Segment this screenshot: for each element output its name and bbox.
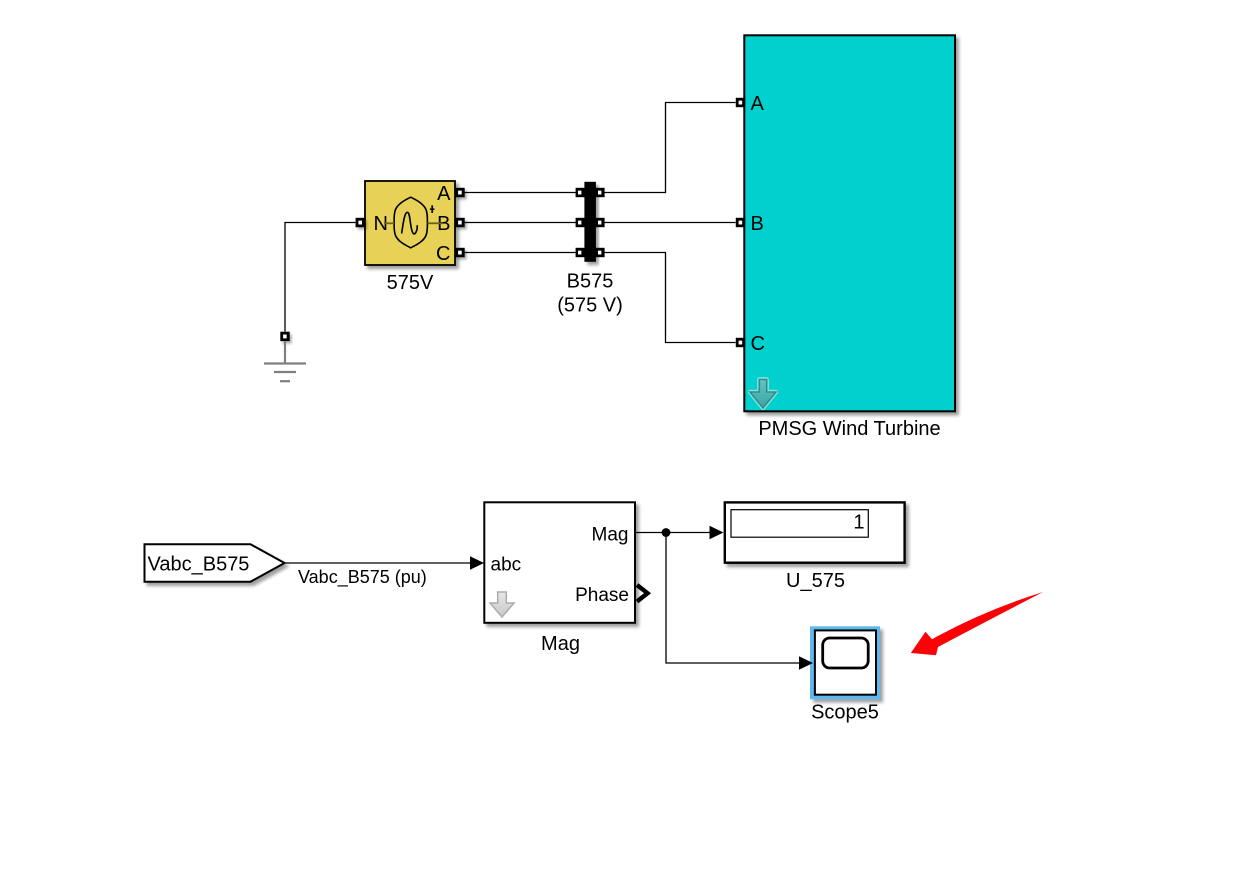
bus bar B575	[584, 182, 596, 262]
Mag block	[484, 502, 635, 623]
display U_575	[725, 502, 905, 562]
wire junction to Scope5	[666, 533, 800, 664]
scope Scope5 selection highlight	[810, 626, 880, 699]
svg-text:Scope5: Scope5	[811, 702, 879, 724]
arrowhead into Mag	[470, 556, 484, 570]
wire N from source to ground	[285, 223, 356, 332]
svg-text:A: A	[751, 93, 765, 115]
bus port B right	[595, 218, 604, 227]
source icon sine wave	[402, 212, 418, 234]
bus port B left	[576, 218, 585, 227]
bus port A right	[595, 188, 604, 197]
PMSG port B	[736, 218, 745, 227]
svg-text:B: B	[751, 213, 764, 235]
scope Scope5 block	[815, 630, 876, 694]
svg-text:Mag: Mag	[592, 524, 629, 545]
source icon lens	[394, 197, 427, 248]
svg-text:575V: 575V	[387, 272, 434, 294]
PMSG Wind Turbine block	[744, 35, 955, 411]
svg-text:C: C	[436, 243, 450, 265]
Mag unconnected output chevron Phase	[637, 585, 648, 602]
source port B	[455, 218, 464, 227]
bus port C left	[576, 248, 585, 257]
svg-text:B575: B575	[567, 271, 614, 293]
ground port	[280, 332, 289, 341]
svg-text:Phase: Phase	[575, 585, 629, 606]
wire Mag to U_575	[635, 532, 711, 534]
PMSG port A	[736, 98, 745, 107]
svg-text:Mag: Mag	[541, 633, 580, 655]
wire C source to bus	[465, 252, 577, 254]
wire A bus to PMSG	[605, 103, 736, 193]
source port N	[356, 218, 365, 227]
svg-text:PMSG Wind Turbine: PMSG Wind Turbine	[758, 418, 940, 440]
red annotation arrow	[911, 592, 1043, 655]
svg-text:C: C	[751, 333, 765, 355]
wire B bus to PMSG	[605, 222, 736, 224]
junction node	[662, 528, 671, 537]
wire C bus to PMSG	[605, 253, 736, 343]
bus port A left	[576, 188, 585, 197]
source plus mark	[431, 205, 433, 213]
arrowhead into U_575	[710, 526, 724, 540]
Mag mask arrow badge	[490, 592, 514, 617]
svg-text:U_575: U_575	[786, 570, 845, 592]
svg-text:abc: abc	[491, 554, 522, 575]
ground symbol	[264, 342, 306, 382]
source port C	[455, 248, 464, 257]
svg-text:Vabc_B575: Vabc_B575	[148, 553, 250, 575]
bus port C right	[595, 248, 604, 257]
source port A	[455, 188, 464, 197]
source icon lead right	[427, 222, 443, 224]
svg-text:A: A	[437, 183, 451, 205]
wire B source to bus	[465, 222, 577, 224]
wire A source to bus	[465, 192, 577, 194]
source icon lead left	[384, 222, 394, 224]
svg-text:1: 1	[853, 512, 864, 534]
scope screen icon	[823, 638, 869, 668]
svg-text:(575 V): (575 V)	[557, 295, 623, 317]
PMSG mask arrow badge	[750, 380, 776, 409]
wire tag to Mag	[285, 562, 472, 564]
svg-text:Vabc_B575 (pu): Vabc_B575 (pu)	[298, 567, 427, 588]
voltage source 575V	[365, 181, 455, 265]
goto tag Vabc_B575	[145, 544, 285, 581]
PMSG port C	[736, 338, 745, 347]
arrowhead into Scope5	[799, 656, 813, 670]
